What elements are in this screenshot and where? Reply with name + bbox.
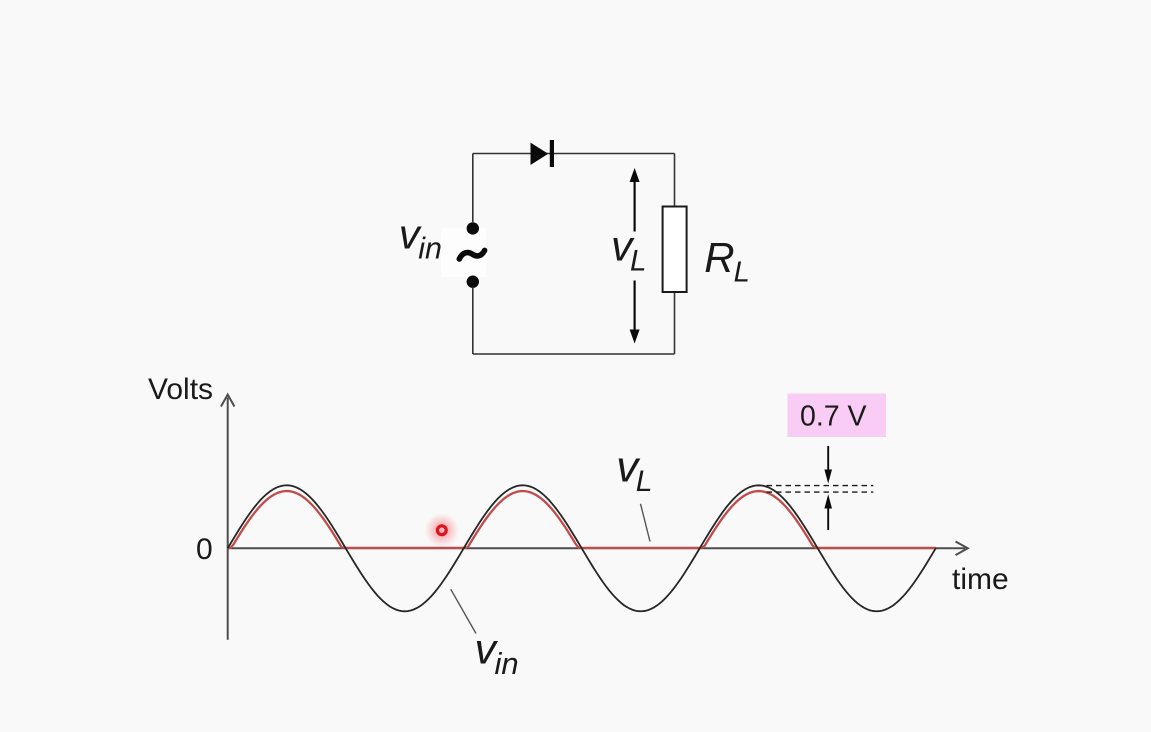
wire left upper <box>472 154 474 223</box>
waveform vL (red) <box>228 491 936 548</box>
AC source terminal dot upper <box>467 222 479 234</box>
svg-text:Volts: Volts <box>148 373 213 406</box>
wire top (circuit loop) <box>473 153 675 155</box>
resistor R_L body <box>663 207 687 293</box>
dashed line at vin peak level <box>767 485 874 487</box>
vL measurement arrow up (circuit) <box>630 168 640 232</box>
wire right lower <box>674 292 676 354</box>
graph y-axis <box>221 395 234 640</box>
dashed line at vL peak level <box>767 491 874 493</box>
svg-text:RL: RL <box>704 234 749 289</box>
AC source tilde symbol <box>459 250 484 259</box>
svg-text:time: time <box>952 563 1009 596</box>
svg-text:vin: vin <box>475 625 519 680</box>
waveform vin (black sine) <box>228 485 936 611</box>
svg-text:vin: vin <box>399 210 442 265</box>
pointer line to vin trace <box>451 589 476 633</box>
wire bottom <box>473 353 675 355</box>
AC source terminal dot lower <box>467 276 479 288</box>
wire right upper <box>674 154 676 208</box>
svg-text:0: 0 <box>196 533 213 566</box>
annotation arrow up (to peak gap) <box>824 494 832 530</box>
0.7V annotation box <box>788 394 887 438</box>
diode D1 <box>531 140 555 167</box>
svg-text:vL: vL <box>611 223 646 278</box>
svg-text:vL: vL <box>616 442 652 498</box>
laser pointer dot glow <box>424 513 459 548</box>
pointer line to vL trace <box>641 504 651 542</box>
graph x-axis <box>228 542 968 556</box>
wire left lower <box>472 288 474 354</box>
vL measurement arrow down (circuit) <box>630 281 640 344</box>
laser pointer dot <box>437 526 446 535</box>
annotation arrow down (to peak gap) <box>824 446 832 484</box>
source background patch <box>441 228 486 277</box>
svg-text:0.7 V: 0.7 V <box>800 401 867 433</box>
